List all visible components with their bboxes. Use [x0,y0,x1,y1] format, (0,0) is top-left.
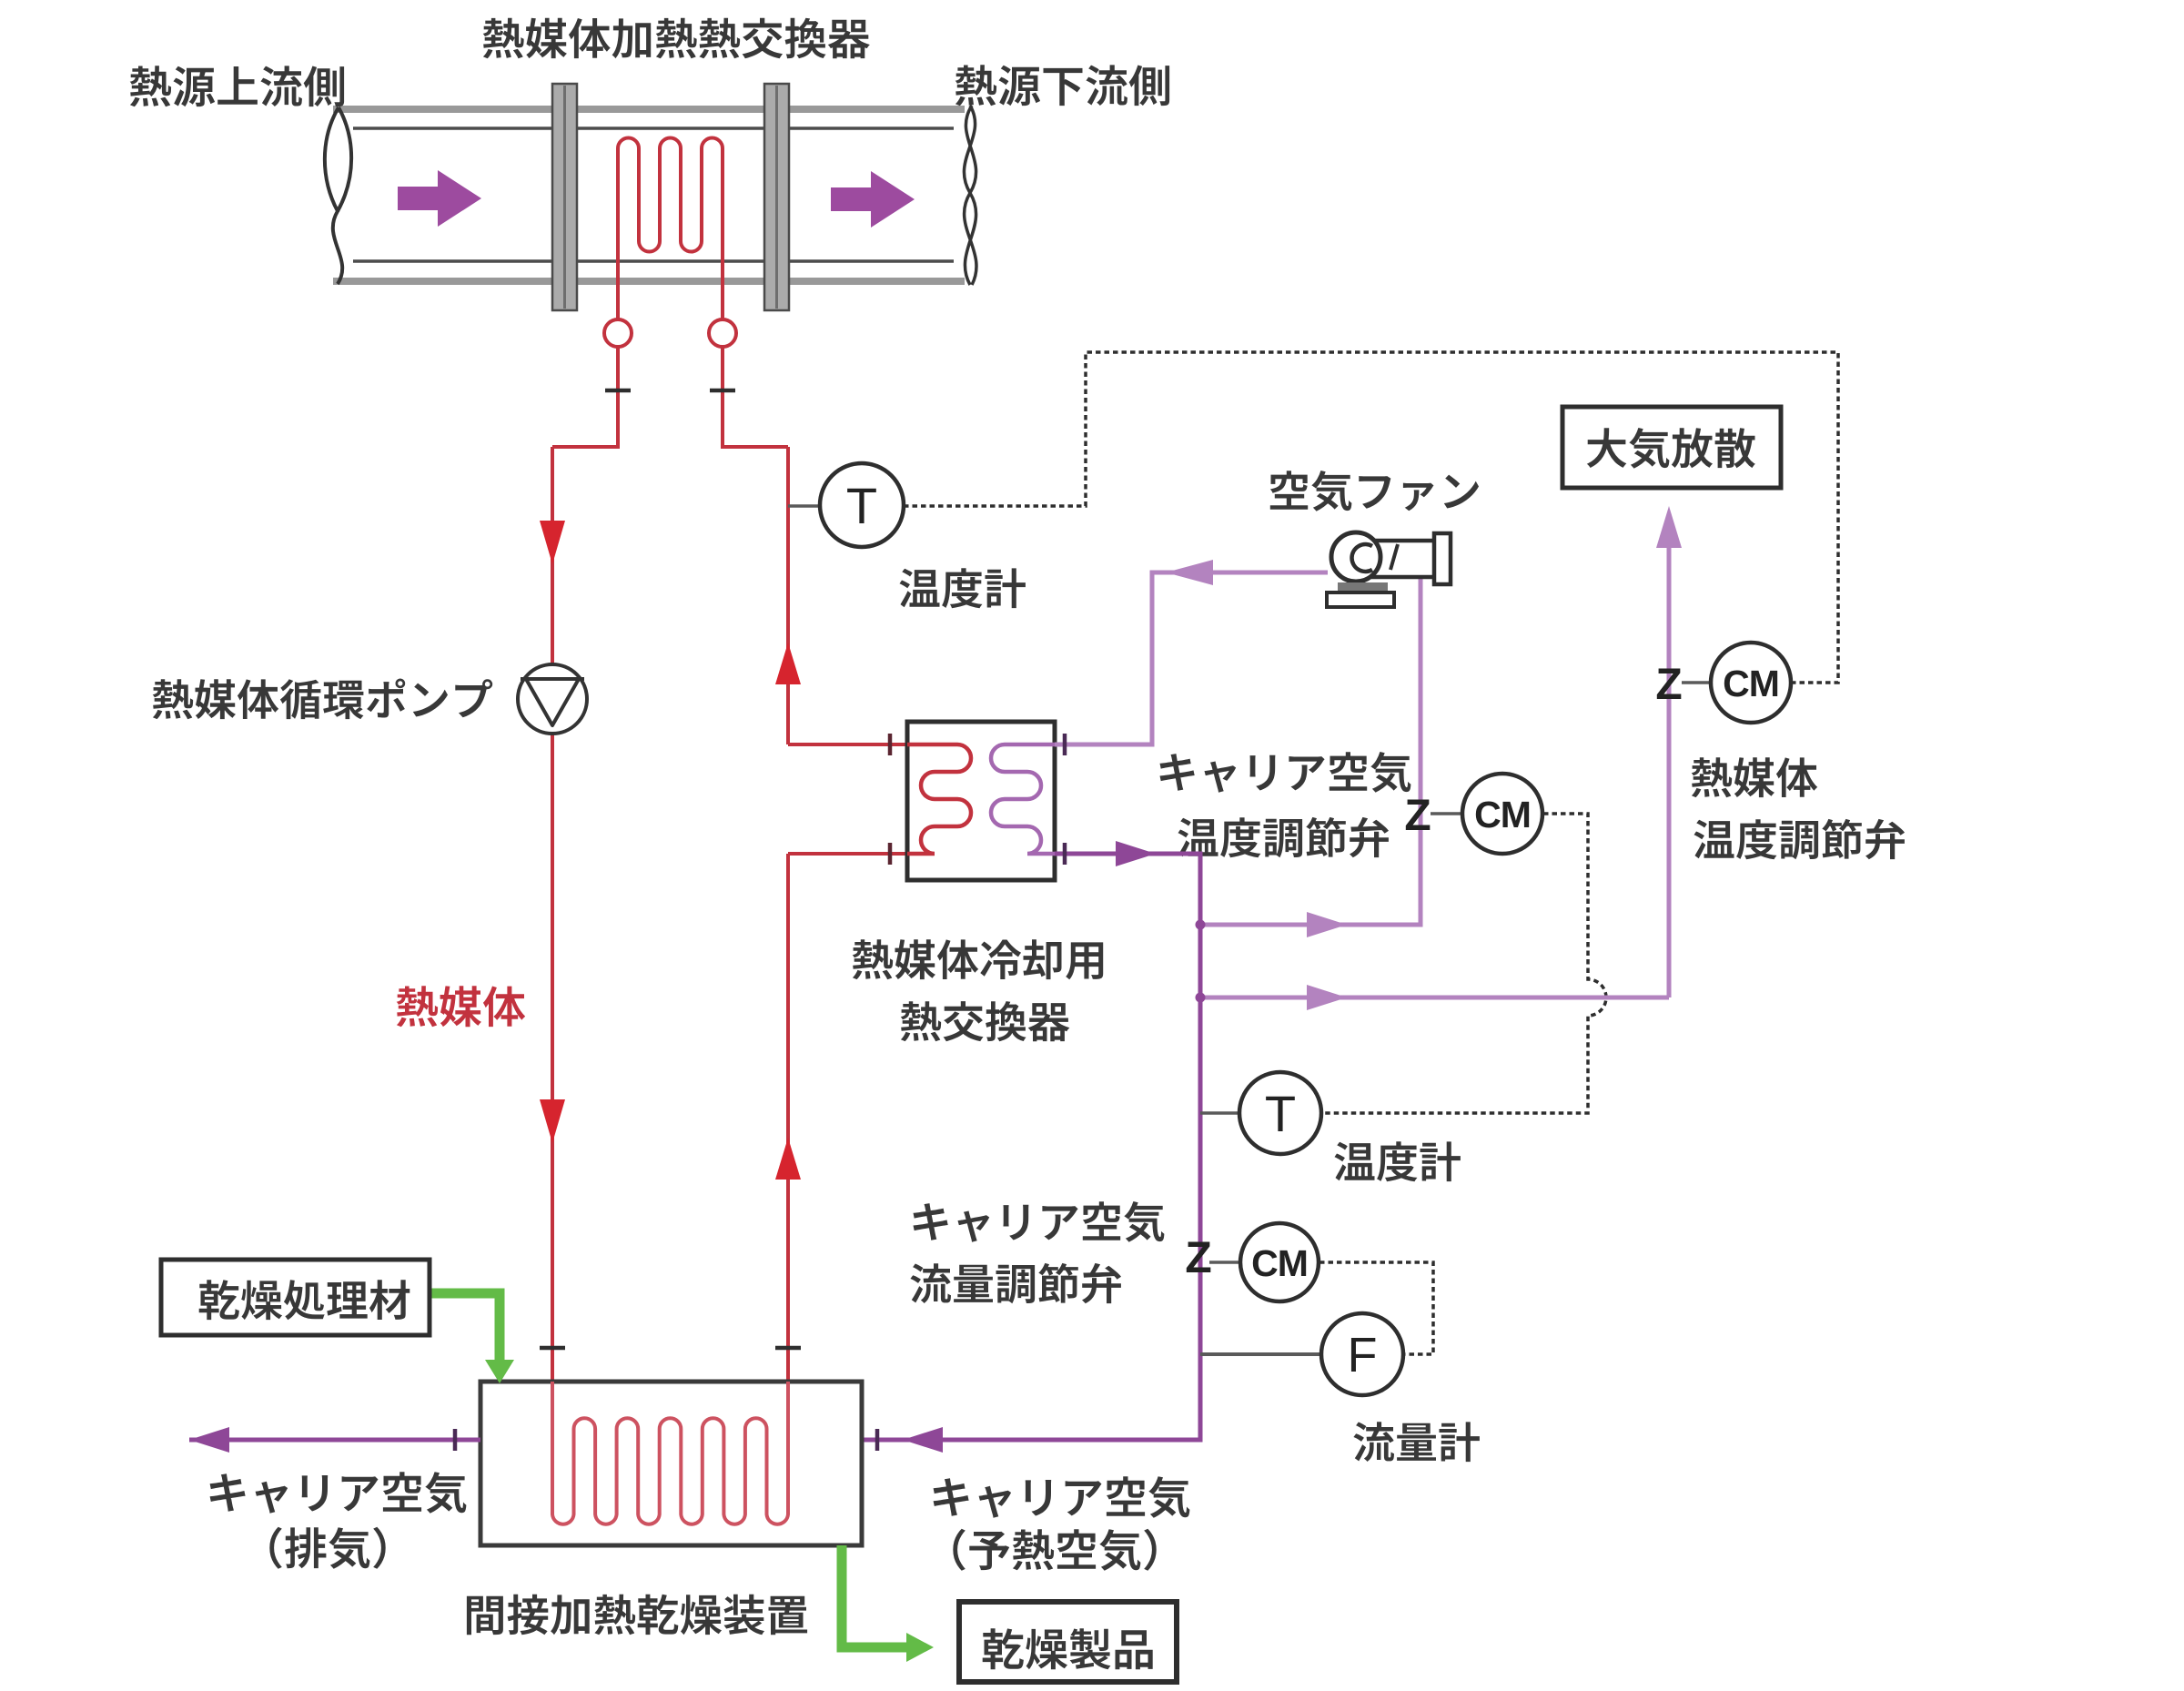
label carrier air exhaust line2 [269,1527,385,1569]
cooling HX red inlet port [788,734,907,755]
dryer coupling tick right [775,1346,801,1351]
label carrier air temp valve line2 [1178,817,1390,857]
red lead right below circle [723,345,788,447]
svg-text:CM: CM [1723,663,1779,704]
vent arrow up [1656,506,1682,548]
gauge T1 dashed control line [904,352,1838,683]
HX air outlet arrow [1116,841,1156,866]
red up arrow 1 [775,643,801,684]
label material to be dried [199,1280,410,1320]
material feed arrow [485,1360,514,1383]
motor CM1 [1711,643,1791,723]
svg-text:Z: Z [1655,661,1682,709]
dashed CM2 to T2 [1321,814,1606,1113]
label carrier air flow valve line2 [910,1263,1121,1303]
svg-text:CM: CM [1251,1242,1308,1284]
label carrier air preheat line1 [934,1476,1190,1518]
gauge T2 circle [1239,1072,1321,1154]
material feed wire (green) [430,1293,500,1363]
motor CM3 connector [1209,1261,1241,1264]
wire red supply vertical (pump line) [551,447,554,1516]
HX air outlet tick [1063,843,1067,865]
duct left break symbol [325,107,351,284]
dryer coupling tick left [540,1346,565,1351]
HX air inlet tick [1063,734,1067,755]
product arrow [906,1633,934,1662]
label cooling HX line1 [853,939,1103,979]
svg-text:CM: CM [1474,794,1531,835]
label carrier air flow valve line1 [914,1201,1165,1242]
flow arrow right (purple) [831,171,915,228]
label indirect heating dryer [467,1595,807,1635]
red lead left below circle [552,345,618,447]
exhaust arrow [189,1427,229,1453]
dryer red coil [552,1382,788,1524]
label carrier air exhaust line1 [210,1472,467,1514]
svg-text:T: T [846,477,877,534]
label heat-medium heating HX [483,18,870,59]
motor CM2 [1462,774,1542,854]
exhaust tick [453,1429,458,1451]
product wire (green) [842,1545,910,1647]
label atmosphere release [1587,428,1755,469]
wire red return upper (to heating coil) [786,447,790,744]
label heat medium valve line1 [1692,757,1818,797]
material feed box [161,1260,430,1335]
exhaust wire [189,1438,480,1443]
gauge T1 circle [820,463,904,547]
svg-text:T: T [1265,1085,1296,1142]
branch wire to vent valve [1200,996,1669,1000]
red down arrow 2 [540,1099,565,1143]
cooling HX red coil [907,744,971,854]
air fan icon [1327,532,1451,607]
cooling HX red outlet port [788,843,907,865]
cooling HX box [907,722,1055,880]
dryer air inlet arrow [903,1427,943,1453]
svg-text:Z: Z [1404,792,1431,840]
label dried product [983,1628,1153,1669]
fan discharge arrow [1166,560,1213,585]
gauge T1 connector [788,504,822,508]
label air fan [1270,471,1479,511]
valve Z3 [1185,1234,1211,1282]
wire red return lower (dryer to cooling HX) [786,854,790,1382]
dryer air inlet tick [875,1429,880,1451]
vent wire to atmosphere [1667,546,1672,997]
label flow meter [1353,1422,1480,1462]
cooling HX purple coil [991,744,1055,854]
gauge T2 connector [1200,1111,1241,1115]
label carrier air preheat line2 [953,1529,1156,1571]
svg-text:Z: Z [1185,1234,1211,1282]
flow arrow left (purple) [398,170,481,227]
coupling tick left lead [605,389,631,393]
label cooling HX line2 [901,1001,1070,1041]
junction dot branch2 [1196,993,1206,1003]
label heat medium (red) [397,986,526,1027]
motor CM3 [1240,1223,1319,1301]
valve Z1 [1655,661,1682,709]
dashed CM3 to F [1319,1262,1433,1354]
junction dot branch1 [1196,920,1206,930]
duct right break symbol [964,106,976,285]
heat-medium heating heat-exchanger coil [618,138,723,322]
product box [959,1602,1177,1682]
heat medium circulation pump [518,664,587,734]
union circle right lead [709,319,736,347]
indirect heating dryer box [480,1382,862,1545]
heat source duct walls [333,109,965,281]
flange right [764,84,789,310]
flow meter F circle [1321,1313,1403,1395]
red up arrow 2 [775,1138,801,1180]
HX air outlet port wire [862,854,1200,1440]
fan discharge wire [1055,572,1328,744]
label heat medium valve line2 [1694,819,1906,859]
flow meter connector [1200,1352,1323,1356]
label circulation pump [153,679,493,720]
red down arrow 1 [540,521,565,564]
atmosphere release box [1562,407,1781,488]
flange left [552,84,577,310]
valve Z2 [1404,792,1431,840]
label heat source downstream [955,65,1169,106]
branch2 arrow [1307,985,1347,1010]
label heat source upstream [130,66,344,106]
label thermometer 1 [900,568,1026,608]
fan suction wire [1200,577,1421,925]
label thermometer 2 [1335,1141,1461,1181]
union circle left lead [604,319,632,347]
label carrier air temp valve line1 [1160,752,1411,793]
coupling tick right lead [710,389,735,393]
motor CM2 connector [1431,812,1465,815]
svg-text:F: F [1348,1328,1378,1382]
fan suction arrow [1307,912,1347,937]
motor CM1 connector [1682,681,1711,684]
